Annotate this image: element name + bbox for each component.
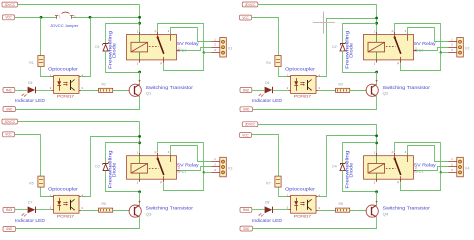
resistor R7 (266, 176, 281, 187)
diode D3 Freewheeling (95, 162, 108, 171)
wire VCC rail (15, 17, 140, 19)
net flag JDVCC (242, 122, 257, 127)
junction VCC/R1 (40, 16, 43, 19)
svg-text:PCF817: PCF817 (294, 214, 311, 218)
svg-text:5V Relay: 5V Relay (414, 41, 437, 46)
svg-text:JDVCC: JDVCC (245, 123, 256, 127)
svg-text:Optocoupler: Optocoupler (48, 67, 79, 72)
wire VCC to resistor (15, 135, 41, 177)
LED D7 Indicator LED (22, 201, 36, 217)
wire base resistor to transistor (113, 90, 130, 92)
svg-text:JDVCC: JDVCC (5, 3, 16, 7)
optocoupler OK2 PCF817 (287, 74, 321, 94)
wire R1 branch (40, 17, 42, 55)
wire JDVCC rail (18, 122, 140, 154)
svg-text:IN4: IN4 (243, 208, 249, 212)
diode D1 Freewheeling (95, 42, 108, 51)
wire NC contact to connector pin 2 (180, 48, 212, 51)
svg-text:JDVCC: JDVCC (5, 120, 16, 124)
wire resistor to opto anode (279, 67, 289, 77)
relay pin stubs (377, 32, 417, 63)
wire to connector pin 3 (441, 52, 449, 54)
wire JDVCC rail (258, 4, 377, 31)
junction common/connector pin 3 (203, 51, 205, 53)
svg-text:R1: R1 (29, 61, 33, 65)
junction JDVCC/diode tap (138, 141, 141, 144)
wire NO contact to connector pin 1 (171, 28, 212, 42)
relay K2 5V SPDT (364, 29, 418, 66)
svg-text:5V Relay: 5V Relay (414, 162, 437, 167)
junction common/connector pin 3 (440, 171, 442, 173)
svg-text:P: P (160, 181, 162, 185)
net flag IN1 (3, 88, 15, 93)
wire common pivot to connector pin 3 (158, 143, 204, 173)
wire common blade to connector pin 3 (401, 173, 441, 191)
svg-text:GND: GND (6, 107, 13, 111)
wire opto emitter to base resistor (81, 210, 98, 212)
svg-text:P: P (155, 151, 157, 155)
wire freewheeling diode tap (343, 24, 377, 44)
net flag GND (3, 227, 16, 232)
svg-text:P: P (397, 61, 399, 65)
label Freewheeling Diode (vertical) (344, 150, 353, 189)
net flag JDVCC (2, 119, 18, 124)
svg-text:D7: D7 (28, 201, 32, 205)
wire emitter to GND (253, 97, 377, 110)
wire opto collector branch (82, 18, 91, 77)
wire freewheeling diode tap (106, 143, 140, 164)
net flag JDVCC (2, 2, 18, 7)
svg-text:JDVCC: JDVCC (245, 3, 256, 7)
svg-text:Switching Transistor: Switching Transistor (146, 206, 194, 211)
svg-text:K2: K2 (465, 47, 469, 51)
svg-text:D1: D1 (95, 45, 99, 49)
svg-text:Switching Transistor: Switching Transistor (383, 206, 431, 211)
junction JDVCC/collector rail (375, 134, 378, 137)
wire opto emitter to base resistor (81, 90, 98, 92)
svg-text:D2: D2 (332, 45, 336, 49)
svg-text:K3: K3 (228, 166, 232, 170)
wire base resistor to transistor (113, 210, 130, 212)
wire VCC to resistor (252, 18, 279, 56)
svg-text:P: P (160, 61, 162, 65)
wire collector (376, 72, 378, 84)
optocoupler OK3 PCF817 (50, 194, 84, 214)
connector K4 (449, 157, 470, 177)
relay pin stubs (140, 153, 180, 182)
wire LED to opto cathode (273, 90, 289, 92)
diode D2 Freewheeling (332, 42, 345, 51)
svg-text:R3: R3 (339, 82, 343, 86)
wire input to LED (15, 209, 28, 211)
junction JDVCC/collector rail (375, 17, 378, 20)
wire opto collector to JDVCC (319, 136, 377, 197)
resistor R5 (29, 176, 44, 187)
diode D4 Freewheeling (332, 162, 345, 171)
net flag GND (240, 226, 253, 231)
svg-text:Indicator LED: Indicator LED (252, 98, 282, 103)
svg-text:GND: GND (6, 227, 13, 231)
wire common blade to connector pin 3 (401, 53, 441, 71)
net flag GND (3, 107, 16, 112)
label Freewheeling Diode (vertical) (107, 149, 116, 188)
junction VCC/opto collector (89, 16, 92, 19)
svg-text:D4: D4 (332, 165, 336, 169)
wire input to LED (252, 209, 265, 211)
wire collector (139, 72, 141, 84)
net flag IN2 (240, 88, 252, 93)
resistor R2 (99, 82, 113, 92)
wire resistor to opto anode (279, 188, 289, 197)
wire common pivot to connector pin 3 (395, 143, 441, 173)
relay pin stubs (140, 32, 180, 63)
svg-text:D8: D8 (265, 201, 269, 205)
svg-text:5V Relay: 5V Relay (177, 41, 200, 46)
svg-text:IN2: IN2 (243, 88, 249, 92)
wire NO contact to connector pin 1 (408, 146, 449, 162)
svg-text:Diode: Diode (349, 162, 354, 178)
svg-text:Q1: Q1 (146, 92, 152, 96)
svg-text:VCC: VCC (242, 133, 249, 137)
wire NO contact to connector pin 1 (408, 28, 449, 42)
wire NC contact to connector pin 2 (417, 48, 449, 51)
svg-text:Optocoupler: Optocoupler (285, 67, 316, 72)
net flag JDVCC (242, 2, 257, 7)
wire diode to coil/collector node (343, 51, 377, 73)
svg-text:P: P (397, 181, 399, 185)
wire LED to opto cathode (36, 90, 52, 92)
svg-text:D3: D3 (95, 165, 99, 169)
wire opto emitter to base resistor (318, 210, 335, 212)
resistor R3 (336, 82, 350, 92)
svg-text:Diode: Diode (349, 42, 354, 58)
svg-text:Diode: Diode (112, 42, 117, 58)
svg-text:K4: K4 (465, 166, 469, 170)
svg-text:Q2: Q2 (383, 92, 389, 96)
net flag VCC (240, 133, 252, 138)
svg-text:GND: GND (243, 108, 250, 112)
wire input to LED (15, 90, 28, 92)
wire common blade to connector pin 3 (164, 53, 204, 71)
wire NO contact to connector pin 1 (171, 146, 212, 162)
svg-text:PCF817: PCF817 (57, 214, 74, 218)
wire to connector pin 3 (204, 172, 212, 174)
svg-text:SPDT: SPDT (177, 49, 187, 53)
wire LED to opto cathode (36, 209, 52, 211)
svg-text:PCF817: PCF817 (294, 95, 311, 99)
wire diode to coil/collector node (343, 171, 377, 192)
svg-text:IN1: IN1 (6, 88, 12, 92)
optocoupler OK4 PCF817 (287, 194, 321, 214)
LED D6 Indicator LED (259, 81, 273, 97)
svg-text:R5: R5 (29, 181, 33, 185)
connector K3 (212, 157, 233, 177)
wire common blade to connector pin 3 (164, 173, 204, 191)
svg-text:Indicator LED: Indicator LED (15, 218, 45, 223)
resistor R6 (99, 202, 113, 212)
svg-text:P: P (155, 30, 157, 34)
net flag VCC (3, 132, 15, 137)
connector K1 (212, 37, 233, 57)
wire emitter to GND (16, 218, 140, 229)
wire emitter to GND (16, 97, 140, 110)
wire collector (376, 192, 378, 205)
svg-text:JDVCC Jumper: JDVCC Jumper (50, 23, 79, 28)
junction coil/collector (375, 190, 378, 193)
junction common/connector pin 3 (440, 51, 442, 53)
net flag IN4 (240, 207, 252, 212)
svg-text:IN3: IN3 (6, 208, 12, 212)
optocoupler OK1 PCF817 (50, 74, 84, 94)
wire to connector pin 3 (204, 52, 212, 54)
junction coil/collector (375, 71, 378, 74)
wire base resistor to transistor (350, 90, 367, 92)
wire JDVCC rail (258, 124, 377, 153)
wire freewheeling diode tap (106, 24, 140, 44)
wire NC contact to connector pin 2 (417, 167, 449, 171)
junction JDVCC/collector rail (138, 135, 141, 138)
wire opto emitter to base resistor (318, 90, 335, 92)
wire diode to coil/collector node (106, 51, 140, 73)
label Freewheeling Diode (vertical) (344, 30, 353, 69)
relay pin stubs (377, 153, 417, 182)
transistor Q2 (366, 80, 378, 97)
wire opto collector to JDVCC (82, 137, 140, 197)
svg-text:P: P (392, 151, 394, 155)
wire LED to opto cathode (273, 209, 289, 211)
net flag VCC (240, 15, 252, 20)
relay K1 5V SPDT (127, 29, 181, 66)
cursor crosshair (313, 12, 335, 34)
svg-text:5V Relay: 5V Relay (177, 162, 200, 167)
svg-text:D6: D6 (265, 81, 269, 85)
svg-text:SPDT: SPDT (414, 49, 424, 53)
wire base resistor to transistor (350, 210, 367, 212)
wire resistor to opto anode (41, 67, 52, 77)
jumper JP1 JDVCC Jumper (55, 12, 76, 19)
junction JDVCC/diode tap (375, 22, 378, 25)
junction JDVCC/diode tap (375, 142, 378, 145)
LED D8 Indicator LED (259, 201, 273, 217)
resistor R8 (336, 202, 350, 212)
wire freewheeling diode tap (343, 143, 377, 164)
svg-text:R7: R7 (266, 181, 270, 185)
svg-text:GND: GND (243, 227, 250, 231)
resistor R4 (266, 56, 281, 67)
wire collector (139, 192, 141, 205)
svg-text:Switching Transistor: Switching Transistor (146, 85, 194, 90)
wire VCC to resistor (252, 135, 279, 177)
svg-text:R6: R6 (102, 202, 106, 206)
junction coil/collector (138, 190, 141, 193)
svg-text:Switching Transistor: Switching Transistor (383, 85, 431, 90)
wire diode to coil/collector node (106, 171, 140, 192)
svg-text:Indicator LED: Indicator LED (15, 98, 45, 103)
net flag IN3 (3, 207, 15, 212)
junction JDVCC/collector rail (138, 16, 141, 19)
wire JDVCC rail (18, 5, 140, 32)
svg-text:Q4: Q4 (383, 212, 389, 216)
svg-text:Optocoupler: Optocoupler (285, 187, 316, 192)
junction JDVCC/diode tap (138, 22, 141, 25)
connector K2 (449, 37, 470, 57)
svg-text:P: P (392, 30, 394, 34)
svg-text:VCC: VCC (242, 16, 249, 20)
svg-text:R8: R8 (339, 202, 343, 206)
wire resistor to opto anode (41, 188, 52, 197)
svg-text:R4: R4 (266, 61, 270, 65)
transistor Q4 (366, 201, 378, 218)
wire emitter to GND (253, 218, 377, 229)
svg-text:PCF817: PCF817 (57, 95, 74, 99)
svg-text:Q3: Q3 (146, 212, 152, 216)
label Freewheeling Diode (vertical) (107, 30, 116, 69)
relay K4 5V SPDT (364, 150, 418, 185)
net flag VCC (3, 15, 15, 20)
LED D5 Indicator LED (22, 81, 36, 97)
wire input to LED (252, 90, 265, 92)
resistor R1 (29, 56, 44, 67)
wire to connector pin 3 (441, 172, 449, 174)
junction common/connector pin 3 (203, 171, 205, 173)
wire opto collector to JDVCC (319, 19, 377, 77)
svg-text:VCC: VCC (5, 133, 12, 137)
svg-text:Indicator LED: Indicator LED (252, 218, 282, 223)
wire NC contact to connector pin 2 (180, 167, 212, 171)
transistor Q3 (129, 201, 141, 218)
svg-text:R2: R2 (102, 82, 106, 86)
svg-text:Diode: Diode (112, 162, 117, 178)
net flag GND (240, 107, 253, 112)
wire common pivot to connector pin 3 (395, 24, 441, 53)
svg-text:VCC: VCC (5, 16, 12, 20)
transistor Q1 (129, 80, 141, 97)
relay K3 5V SPDT (127, 150, 181, 185)
svg-text:K1: K1 (228, 47, 232, 51)
svg-text:D5: D5 (28, 81, 32, 85)
wire common pivot to connector pin 3 (158, 24, 204, 53)
junction coil/collector (138, 71, 141, 74)
svg-text:Optocoupler: Optocoupler (48, 187, 79, 192)
